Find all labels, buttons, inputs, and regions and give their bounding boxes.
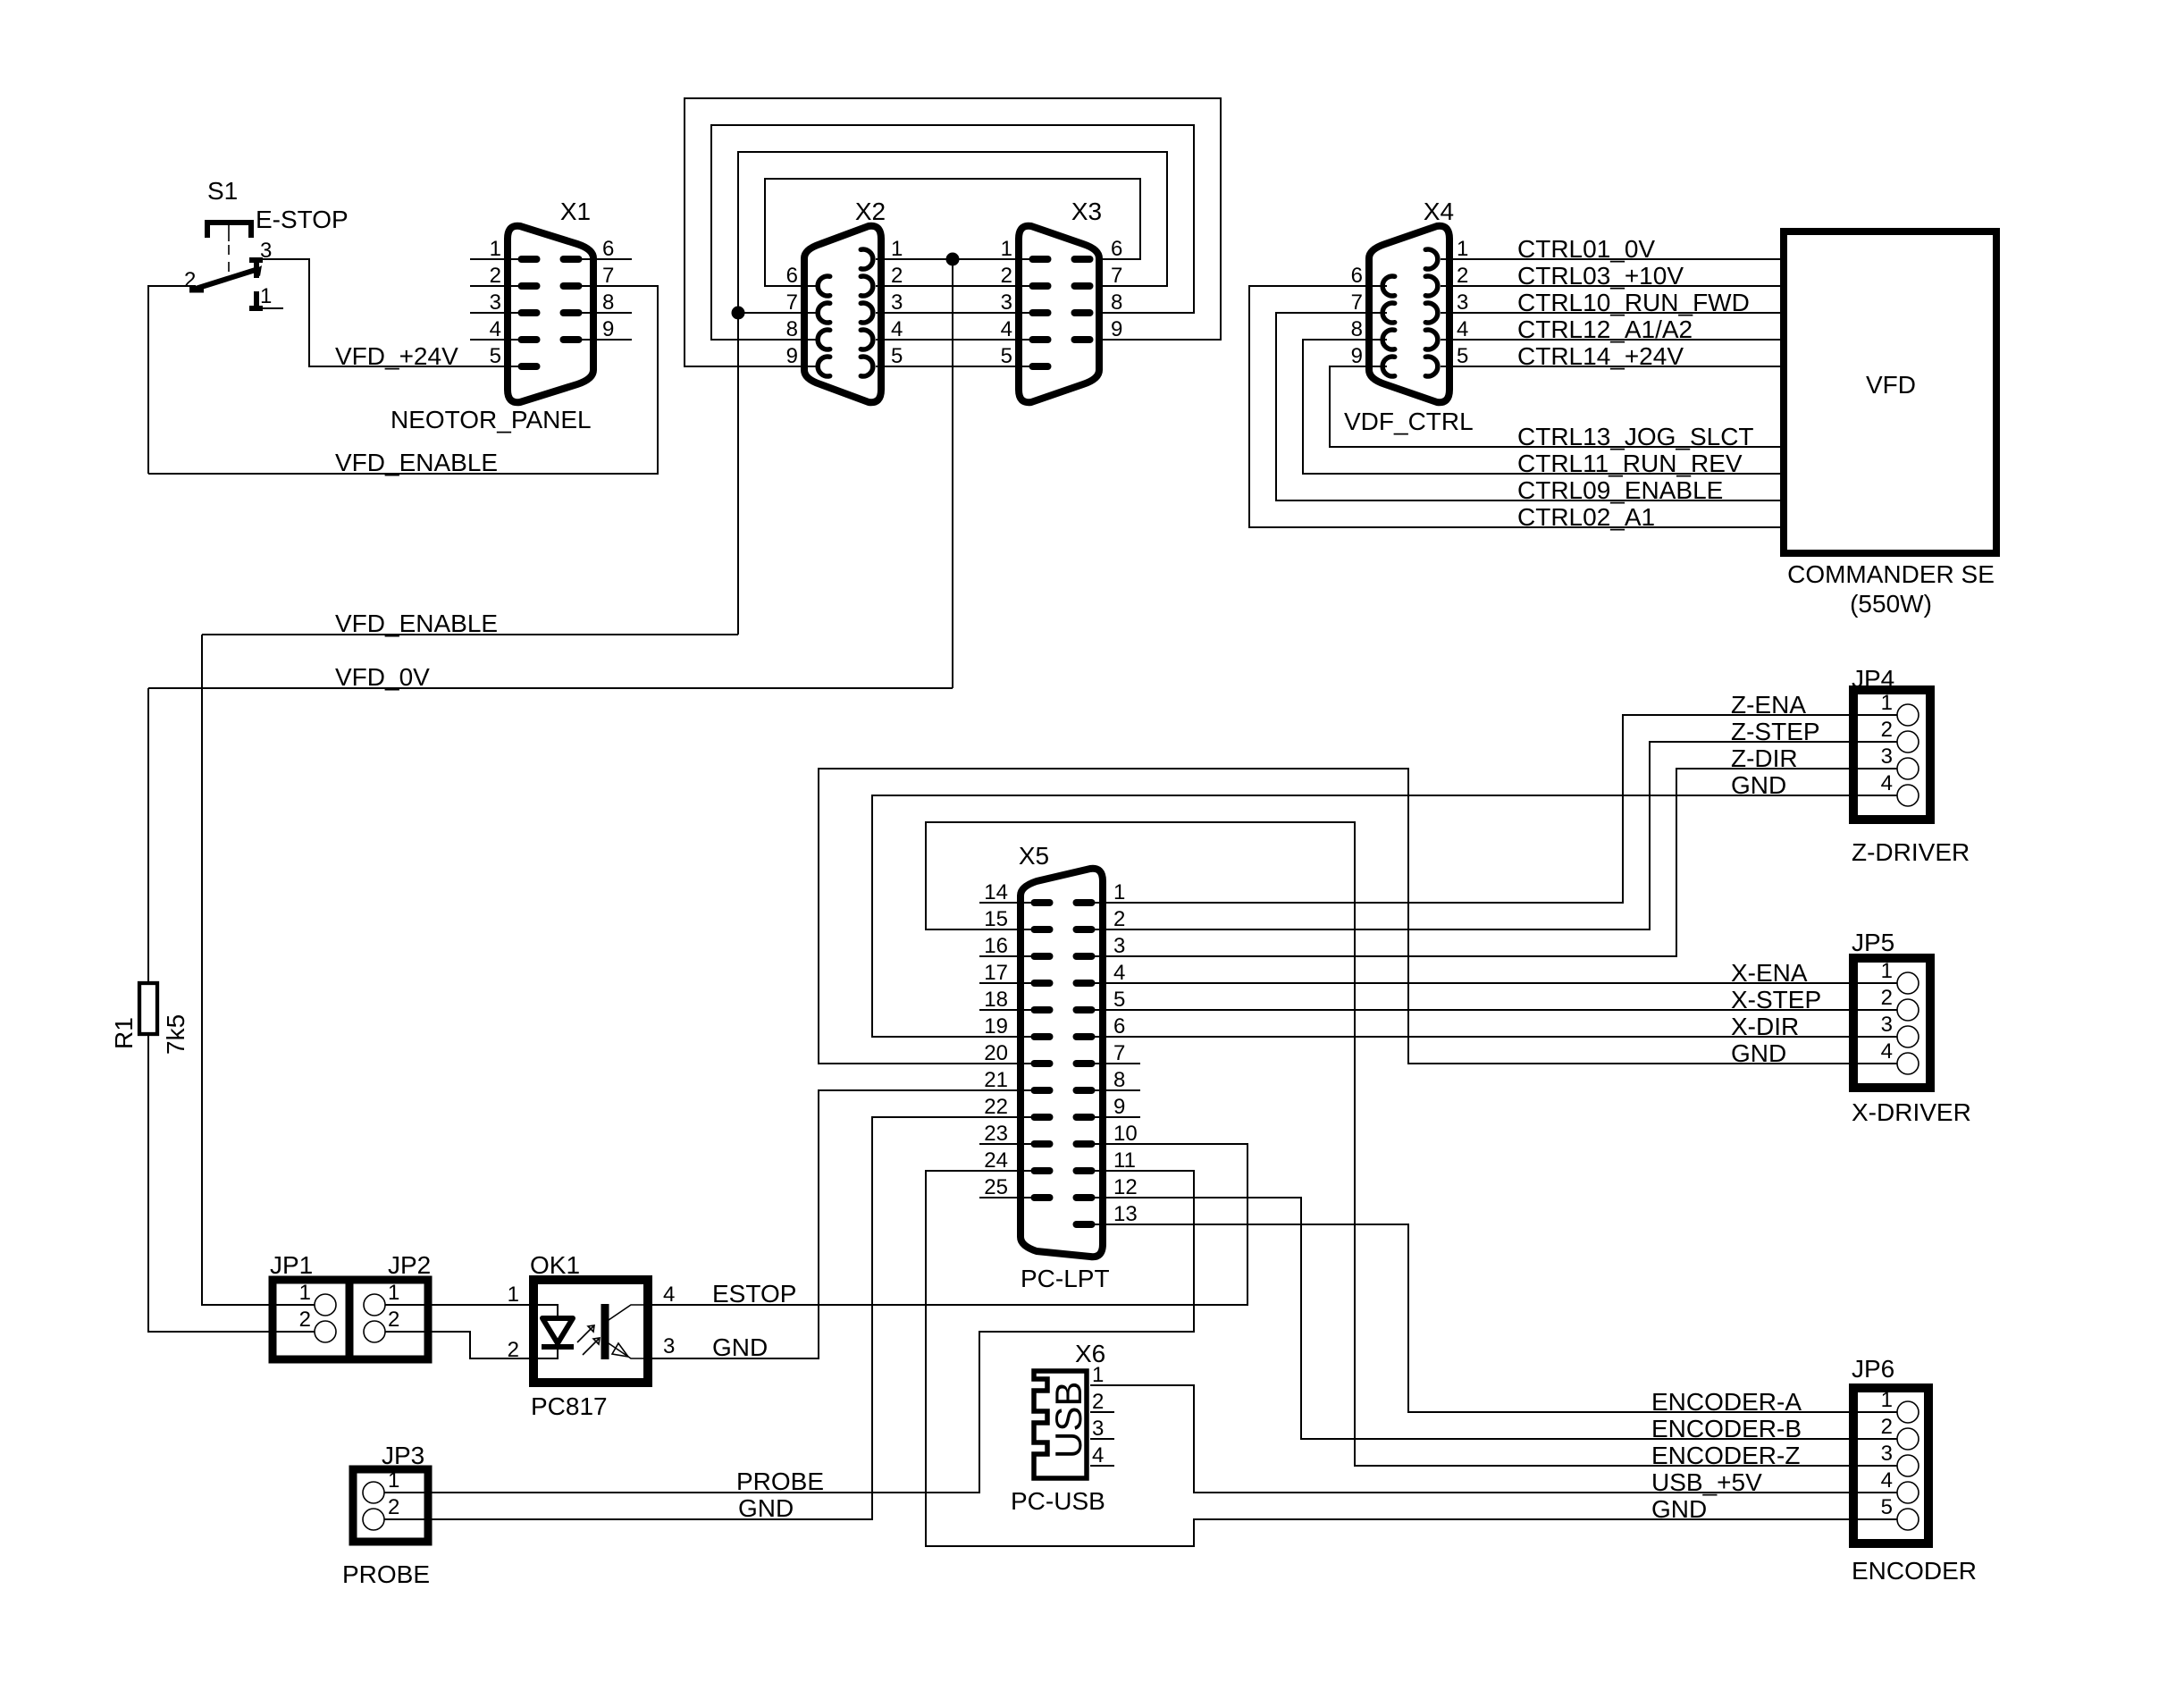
svg-text:5: 5 [891,344,903,368]
svg-text:VFD_+24V: VFD_+24V [335,342,458,370]
svg-text:GND: GND [1651,1495,1707,1523]
svg-text:5: 5 [1001,344,1012,368]
svg-text:CTRL14_+24V: CTRL14_+24V [1517,342,1684,370]
wire net VFD_0V : horizontal run [148,687,953,689]
X1 pin number 3 [490,290,501,315]
svg-text:1: 1 [1113,880,1125,904]
X5 pin number 11 [1113,1148,1136,1173]
pin stub X6 pin 2 (n.c.) [1090,1411,1114,1413]
pin stub X1 pin 6 [571,258,632,260]
connector JP5 (X-DRIVER header) [1853,958,1930,1088]
wire X2 pin2 to X3 pin2 [876,285,1046,287]
connector JP1 (jumper) [273,1280,349,1359]
svg-text:1: 1 [508,1283,519,1307]
wire net X-ENA : X5 pin4 to JP5 pin1 [1081,982,1896,984]
connector JP5 name label [1852,929,1894,956]
X4 pin number 1 [1457,237,1468,261]
net label USB_+5V [1651,1468,1762,1496]
connector X2 (DB9 female) [804,226,881,402]
X5 pin number 20 [984,1041,1008,1065]
pin stub X5 pin 17 (n.c.) [979,982,1042,984]
svg-text:Z-DRIVER: Z-DRIVER [1852,838,1970,866]
svg-text:1: 1 [260,284,272,308]
connector X4 value label VDF_CTRL [1344,408,1474,435]
net label Z-ENA [1731,691,1806,719]
svg-text:(550W): (550W) [1850,590,1932,618]
resistor R1 body [139,983,157,1034]
wire net CTRL10_RUN_FWD : X4 pin3 to VFD [1441,312,1780,314]
wire net GND : X5 pin20 rail to JP5 pin4 [819,769,1896,1064]
connector JP3 name label [382,1442,424,1469]
pin stub X1 pin 5 [508,366,529,367]
switch S1 pole lever (pin2 to pin3) [189,265,262,290]
connector X4 (DB9 female) VDF_CTRL [1369,226,1449,402]
wire net ENCODER-A : X5 pin13 to JP6 pin1 [1081,1224,1896,1412]
JP5 pin number 3 [1881,1013,1893,1037]
X5 pin number 17 [984,961,1008,985]
pin stub X5 pin 7 (n.c.) [1081,1063,1140,1064]
wire net VFD_+24V : S1 pin3 to X1 pin5 [263,259,518,366]
svg-text:X-DIR: X-DIR [1731,1013,1799,1040]
svg-text:X-ENA: X-ENA [1731,959,1808,987]
svg-text:5: 5 [1113,988,1125,1012]
resistor R1 name label [110,1017,138,1049]
svg-text:5: 5 [1457,344,1468,368]
pin stub X5 pin 23 (n.c.) [979,1143,1042,1145]
connector X6 (PC-USB) body [1034,1371,1087,1478]
svg-text:9: 9 [1113,1095,1125,1119]
X1 pin number 6 [602,237,614,261]
JP2 pin number 1 [388,1281,399,1305]
JP5 pin number 1 [1881,959,1893,983]
JP5 pin number 2 [1881,986,1893,1010]
svg-text:Z-ENA: Z-ENA [1731,691,1806,719]
svg-text:3: 3 [663,1334,675,1358]
wire net CTRL09_ENABLE : X4 pin7 to VFD [1276,313,1780,500]
svg-text:3: 3 [1881,744,1893,769]
svg-text:4: 4 [1881,1039,1893,1064]
pin stub JP6 pin 4 [1857,1492,1897,1493]
wire R1 bottom to JP1 pin2 [148,1034,315,1332]
wire X2 pin9 to X3 pin9 (outer loop) [685,98,1221,366]
svg-text:17: 17 [984,961,1008,985]
pin stub JP4 pin 2 [1857,741,1897,743]
wire net CTRL13_JOG_SLCT : X4 pin9 to VFD [1330,366,1780,447]
wire net CTRL02_A1 : X4 pin6 to VFD [1249,286,1780,527]
switch S1 pin number 3 [260,239,272,263]
net label CTRL13_JOG_SLCT [1517,423,1754,450]
pin stub X6 pin 4 (n.c.) [1090,1465,1114,1467]
VFD box inner label [1866,371,1916,399]
pin stub JP1 pin1 [273,1304,315,1306]
pin stub JP1 pin2 [273,1331,315,1333]
svg-text:24: 24 [984,1148,1008,1173]
X5 pin number 6 [1113,1014,1125,1039]
svg-text:1: 1 [490,237,501,261]
connector JP6 value label ENCODER [1852,1557,1977,1585]
svg-text:GND: GND [738,1494,794,1522]
pin stub JP4 pin 1 [1857,714,1897,716]
X2 pin number 4 [891,317,903,341]
svg-text:20: 20 [984,1041,1008,1065]
wire X2 pin6 to X3 pin6 (inner loop) [765,179,1140,286]
svg-text:3: 3 [1457,290,1468,315]
pin stub X6 pin 3 (n.c.) [1090,1438,1114,1440]
svg-text:18: 18 [984,988,1008,1012]
component S1 name label [207,177,238,205]
X4 pin number 3 [1457,290,1468,315]
connector JP1 name label [270,1251,313,1279]
svg-text:3: 3 [1881,1442,1893,1466]
svg-text:7: 7 [1113,1041,1125,1065]
svg-text:8: 8 [1111,290,1122,315]
X4 pin number 4 [1457,317,1468,341]
pin stub X5 pin 18 (n.c.) [979,1009,1042,1011]
net label CTRL03_+10V [1517,262,1684,290]
connector X5 value label PC-LPT [1021,1265,1110,1292]
wire net ENCODER-B : X5 pin12 to JP6 pin2 [1081,1198,1896,1439]
wire net VFD_ENABLE : horizontal run to X1 pin7 [148,286,658,474]
switch S1 pin 3 fixed contact [249,258,263,278]
net label Z-DIR [1731,744,1798,772]
X5 pin number 5 [1113,988,1125,1012]
svg-text:2: 2 [1881,986,1893,1010]
switch S1 actuator link (dashed) [228,223,230,273]
svg-text:COMMANDER SE: COMMANDER SE [1787,560,1995,588]
svg-text:7k5: 7k5 [162,1014,189,1055]
svg-text:CTRL09_ENABLE: CTRL09_ENABLE [1517,476,1723,504]
svg-text:ESTOP: ESTOP [712,1280,796,1308]
svg-text:5: 5 [1881,1495,1893,1519]
wire X2 pin8 to X3 pin8 (second loop) [711,125,1194,340]
svg-text:15: 15 [984,907,1008,931]
JP6 pin number 4 [1881,1468,1893,1493]
JP3 pin number 1 [388,1468,399,1493]
wire net ESTOP : X5 pin10 to OK1 pin4 [652,1144,1247,1305]
pin stub X5 pin 9 (n.c.) [1081,1116,1140,1118]
connector X5 (DB25 male) PC-LPT [1021,869,1103,1257]
pin stub JP5 pin 1 [1857,982,1897,984]
svg-text:JP6: JP6 [1852,1355,1894,1383]
net label ENCODER-B [1651,1415,1802,1442]
svg-text:2: 2 [184,268,196,292]
pin stub X5 pin 16 (n.c.) [979,955,1042,957]
connector JP4 name label [1852,665,1894,693]
pin stub S1 pin 1 (n.c.) [257,307,283,309]
X4 pin number 6 [1351,264,1363,288]
X3 pin number 4 [1001,317,1012,341]
svg-text:VFD_0V: VFD_0V [335,663,430,691]
X1 pin number 2 [490,264,501,288]
svg-text:16: 16 [984,934,1008,958]
pin stub X1 pin 8 [571,312,632,314]
svg-text:GND: GND [1731,1039,1786,1067]
pin stub X1 pin 4 [470,339,529,341]
connector JP4 value label Z-DRIVER [1852,838,1970,866]
OK1 pin number 2 [508,1338,519,1362]
wire net USB_+5V : X6 pin1 to JP6 pin4 [1090,1385,1896,1493]
svg-text:X-DRIVER: X-DRIVER [1852,1098,1971,1126]
switch S1 pin 1 fixed contact [249,291,263,309]
svg-text:4: 4 [1113,961,1125,985]
X6 pin number 3 [1092,1417,1104,1441]
pin stub JP6 pin 3 [1857,1465,1897,1467]
X5 pin number 22 [984,1095,1008,1119]
svg-text:8: 8 [1113,1068,1125,1092]
connector X5 name label [1019,842,1049,870]
X3 pin number 6 [1111,237,1122,261]
svg-text:3: 3 [490,290,501,315]
wire net VFD_ENABLE : lower horizontal run [202,634,738,635]
net label X-DIR [1731,1013,1799,1040]
svg-text:CTRL01_0V: CTRL01_0V [1517,235,1655,263]
wire net CTRL14_+24V : X4 pin5 to VFD [1441,366,1780,367]
pin stub X5 pin 20 [819,1063,1042,1064]
svg-text:JP5: JP5 [1852,929,1894,956]
switch S1 actuator bracket [207,223,251,238]
X5 pin number 1 [1113,880,1125,904]
X4 pin number 9 [1351,344,1363,368]
svg-text:2: 2 [1457,264,1468,288]
X1 pin number 1 [490,237,501,261]
svg-text:1: 1 [388,1468,399,1493]
JP4 pin number 2 [1881,718,1893,742]
svg-text:14: 14 [984,880,1008,904]
pin stub X5 pin 8 (n.c.) [1081,1089,1140,1091]
X5 pin number 3 [1113,934,1125,958]
svg-text:PROBE: PROBE [342,1560,430,1588]
wire JP2 pin1 to OK1 pin1 [385,1304,529,1306]
svg-text:CTRL11_RUN_REV: CTRL11_RUN_REV [1517,450,1743,477]
net label ENCODER-Z [1651,1442,1800,1469]
JP4 pin number 1 [1881,691,1893,715]
svg-text:GND: GND [712,1333,768,1361]
X6 USB symbol text [1047,1382,1089,1459]
connector JP4 (Z-DRIVER header) [1853,690,1930,820]
connector X2 name label [855,198,886,225]
svg-text:E-STOP: E-STOP [256,206,349,233]
net label ESTOP [712,1280,796,1308]
net label GND (JP5) [1731,1039,1786,1067]
svg-text:6: 6 [1111,237,1122,261]
connector X4 name label [1424,198,1454,225]
svg-text:JP2: JP2 [388,1251,431,1279]
X1 pin number 7 [602,264,614,288]
svg-text:4: 4 [1881,771,1893,795]
wire net GND : X5 pin21 to OK1 pin3 [652,1090,1042,1358]
X5 pin number 4 [1113,961,1125,985]
net label X-STEP [1731,986,1821,1013]
svg-text:6: 6 [1351,264,1363,288]
X2 pin number 8 [786,317,798,341]
X1 pin number 8 [602,290,614,315]
pin stub X5 pin 15 [926,929,1042,930]
svg-text:PC-USB: PC-USB [1011,1487,1105,1515]
svg-text:3: 3 [1881,1013,1893,1037]
optocoupler OK1 box [533,1280,648,1383]
wire X2 pin3 to X3 pin3 [876,312,1046,314]
X5 pin number 12 [1113,1175,1138,1199]
svg-text:S1: S1 [207,177,238,205]
connector JP2 name label [388,1251,431,1279]
wire net VFD_0V : drop from junction [952,259,953,688]
svg-text:VFD_ENABLE: VFD_ENABLE [335,610,498,637]
X2 pin number 3 [891,290,903,315]
svg-text:19: 19 [984,1014,1008,1039]
X5 pin number 10 [1113,1122,1138,1146]
JP6 pin number 3 [1881,1442,1893,1466]
wire net ENCODER-Z : X5 pin15 rail to JP6 pin3 [926,822,1896,1466]
X2 pin number 5 [891,344,903,368]
wire net GND : X5 pin19 rail to JP4 pin4 [872,795,1896,1037]
X3 pin number 1 [1001,237,1012,261]
OK1 phototransistor collector [609,1305,648,1320]
pin stub X1 pin 9 [571,339,632,341]
svg-text:9: 9 [1351,344,1363,368]
wire net CTRL12_A1/A2 : X4 pin4 to VFD [1441,339,1780,341]
svg-text:4: 4 [891,317,903,341]
svg-text:6: 6 [1113,1014,1125,1039]
svg-text:VFD: VFD [1866,371,1916,399]
svg-text:3: 3 [1092,1417,1104,1441]
svg-text:2: 2 [1001,264,1012,288]
svg-text:23: 23 [984,1122,1008,1146]
svg-text:CTRL12_A1/A2: CTRL12_A1/A2 [1517,315,1693,343]
svg-text:VFD_ENABLE: VFD_ENABLE [335,449,498,476]
svg-text:X4: X4 [1424,198,1454,225]
connector X3 (DB9 male) [1019,226,1099,402]
net label Z-STEP [1731,718,1820,745]
X3 pin number 3 [1001,290,1012,315]
svg-text:VDF_CTRL: VDF_CTRL [1344,408,1474,435]
OK1 phototransistor base bar [601,1304,609,1359]
X6 pin number 1 [1092,1363,1104,1387]
wire net X-DIR : X5 pin6 to JP5 pin3 [1081,1036,1896,1038]
connector X1 name label [560,198,591,225]
svg-text:8: 8 [786,317,798,341]
wire X2 pin4 to X3 pin4 [876,339,1046,341]
svg-text:12: 12 [1113,1175,1138,1199]
svg-text:2: 2 [1113,907,1125,931]
svg-text:1: 1 [1001,237,1012,261]
net label GND (OK1) [712,1333,768,1361]
net label X-ENA [1731,959,1808,987]
X5 pin number 14 [984,880,1008,904]
wire JP2 pin2 to OK1 pin2 [385,1332,529,1358]
net label CTRL02_A1 [1517,503,1655,531]
X6 pin number 2 [1092,1390,1104,1414]
svg-text:PC817: PC817 [531,1392,608,1420]
JP1 pin number 1 [299,1281,311,1305]
svg-text:7: 7 [1351,290,1363,315]
wire net VFD_ENABLE : S1 pin2 left rail [148,286,196,474]
X1 pin number 4 [490,317,501,341]
wire net CTRL11_RUN_REV : X4 pin8 to VFD [1303,340,1780,474]
JP4 pin number 4 [1881,771,1893,795]
pin stub X1 pin 1 [470,258,529,260]
svg-text:13: 13 [1113,1202,1138,1226]
connector JP2 (jumper) [349,1280,428,1359]
pin stub X5 pin 19 [872,1036,1042,1038]
JP4 pin number 3 [1881,744,1893,769]
OK1 LED cathode wire [533,1347,558,1358]
junction X2 pin7 / VFD_ENABLE drop [732,307,745,320]
svg-text:R1: R1 [110,1017,138,1049]
wire net Z-DIR : X5 pin3 to JP4 pin3 [1081,769,1896,956]
wire net PROBE : X5 pin11 to JP3 pin1 [384,1171,1194,1493]
svg-text:2: 2 [1881,718,1893,742]
X5 pin number 2 [1113,907,1125,931]
component S1 value label E-STOP [256,206,349,233]
X3 pin number 8 [1111,290,1122,315]
net label VFD_0V [335,663,430,691]
OK1 phototransistor emitter with arrow [609,1343,648,1358]
svg-text:2: 2 [388,1495,399,1519]
JP6 pin number 2 [1881,1415,1893,1439]
X5 pin number 15 [984,907,1008,931]
pin stub JP6 pin 5 [1857,1518,1897,1520]
wire net CTRL03_+10V : X4 pin2 to VFD [1441,285,1780,287]
switch S1 pin number 1 [260,284,272,308]
svg-text:X2: X2 [855,198,886,225]
pin stub JP4 pin 4 [1857,795,1897,796]
component OK1 name label [530,1251,580,1279]
svg-text:ENCODER-A: ENCODER-A [1651,1388,1802,1416]
svg-text:9: 9 [602,317,614,341]
X5 pin number 24 [984,1148,1008,1173]
svg-text:USB: USB [1047,1382,1089,1459]
svg-text:3: 3 [1001,290,1012,315]
wire net X-STEP : X5 pin5 to JP5 pin2 [1081,1009,1896,1011]
X1 pin number 9 [602,317,614,341]
pin stub X1 pin 2 [470,285,529,287]
VFD caption COMMANDER SE [1787,560,1995,588]
pin stub JP5 pin 2 [1857,1009,1897,1011]
pin stub JP6 pin 1 [1857,1411,1897,1413]
net label VFD_ENABLE (upper) [335,449,498,476]
X5 pin number 23 [984,1122,1008,1146]
svg-text:9: 9 [1111,317,1122,341]
pin stub JP4 pin 3 [1857,768,1897,770]
net label CTRL12_A1/A2 [1517,315,1693,343]
svg-text:6: 6 [786,264,798,288]
svg-text:6: 6 [602,237,614,261]
resistor R1 value label 7k5 [162,1014,189,1055]
X4 pin number 5 [1457,344,1468,368]
net label CTRL01_0V [1517,235,1655,263]
X2 pin number 9 [786,344,798,368]
VFD caption (550W) [1850,590,1932,618]
svg-text:3: 3 [1113,934,1125,958]
svg-text:GND: GND [1731,771,1786,799]
svg-text:7: 7 [602,264,614,288]
wire net Z-STEP : X5 pin2 to JP4 pin2 [1081,742,1896,929]
pin stub JP6 pin 2 [1857,1438,1897,1440]
block VFD (COMMANDER SE 550W) [1784,231,1996,553]
X3 pin number 5 [1001,344,1012,368]
pin stub X5 pin 25 (n.c.) [979,1197,1042,1198]
svg-text:ENCODER: ENCODER [1852,1557,1977,1585]
svg-text:1: 1 [891,237,903,261]
svg-text:2: 2 [490,264,501,288]
X2 pin number 2 [891,264,903,288]
net label ENCODER-A [1651,1388,1802,1416]
svg-text:1: 1 [299,1281,311,1305]
X6 pin number 4 [1092,1443,1104,1468]
svg-text:25: 25 [984,1175,1008,1199]
JP3 pin number 2 [388,1495,399,1519]
svg-text:4: 4 [1001,317,1012,341]
